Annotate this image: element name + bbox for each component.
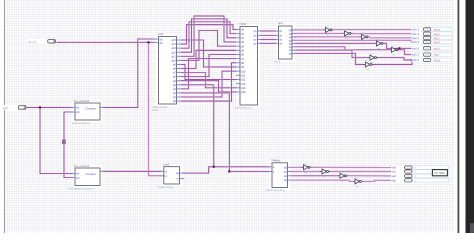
decoder U5 (7-seg driver) xyxy=(276,24,295,62)
svg-text:q13: q13 xyxy=(171,46,176,50)
wire U7.q0 to G8 xyxy=(292,166,302,168)
svg-text:inst8: inst8 xyxy=(158,33,164,36)
svg-text:seg_g: seg_g xyxy=(434,59,441,62)
output pin seg_e xyxy=(422,47,453,51)
wire G2 out to pin seg_b xyxy=(353,33,424,35)
wire net U1.q8 to U2.d5 xyxy=(181,50,236,68)
wire net U1.q11 to U2.d3 (top loop) xyxy=(181,16,236,56)
wire U5.s7 to G7 xyxy=(292,53,364,64)
svg-text:q12: q12 xyxy=(171,50,176,54)
input pin clk1 xyxy=(27,39,47,44)
wire net U1.q0 to U2.d8 xyxy=(181,63,236,101)
wire U5.s0 to G1 xyxy=(292,29,324,31)
svg-text:seg_b: seg_b xyxy=(434,33,441,36)
wire U6 out to U7 pin1 xyxy=(180,167,273,173)
svg-text:inst: inst xyxy=(366,68,370,71)
comparator U6 (small 2x2 block) xyxy=(161,164,182,186)
svg-text:out3..0: out3..0 xyxy=(412,41,420,44)
wire net U1.q9 to U2.d12 xyxy=(181,64,236,79)
svg-text:seg_e: seg_e xyxy=(434,47,441,50)
wire U5.s2 to G3 xyxy=(292,36,360,38)
note box PIC 7SEG xyxy=(432,170,447,176)
svg-text:O: O xyxy=(415,168,417,170)
wire U2.q1 to U5.d1 xyxy=(258,34,279,36)
right dark window bar xyxy=(466,0,474,233)
svg-text:Counter: Counter xyxy=(86,172,96,176)
svg-text:sel2: sel2 xyxy=(392,175,397,178)
wire G9 out to pin dig2 xyxy=(330,171,405,173)
svg-text:cmp1: cmp1 xyxy=(163,163,170,166)
svg-text:d15: d15 xyxy=(241,90,246,94)
svg-text:inst: inst xyxy=(392,53,396,56)
svg-text:74148: 74148 xyxy=(239,23,247,26)
svg-text:PIC 7SEG: PIC 7SEG xyxy=(434,173,445,175)
wire clk2 branch down to counter B pin1 xyxy=(40,107,75,173)
wire net U1.q14 to U2.d0 (top loop) xyxy=(181,25,236,44)
wire net U1.q5 to U2.d15 xyxy=(181,81,236,92)
svg-text:d13: d13 xyxy=(241,82,246,86)
NOT gate G5 xyxy=(390,49,392,51)
wire U7.q3 to G11 xyxy=(292,180,353,181)
wire U7.q2 to G10 xyxy=(292,175,338,177)
wire net U1.q3 to U2.d7 xyxy=(181,59,236,89)
svg-text:Counter: Counter xyxy=(86,107,96,111)
svg-text:d11: d11 xyxy=(241,73,246,77)
wire net U1.q4 to bottom vertical xyxy=(181,84,214,86)
svg-text:O: O xyxy=(415,172,417,174)
output pin dig4 xyxy=(413,179,449,183)
svg-text:out6..0: out6..0 xyxy=(412,59,420,62)
encoder U2 (16-input block) xyxy=(238,24,261,108)
svg-text:seg_a: seg_a xyxy=(434,29,441,32)
wire U2.q0 to U5.d0 xyxy=(258,30,279,32)
svg-text:out5..0: out5..0 xyxy=(412,54,420,57)
wire G6 out to pin seg_g xyxy=(378,58,424,60)
svg-text:out1..0: out1..0 xyxy=(412,33,420,36)
wire G1 out to pin seg_a xyxy=(334,29,424,31)
svg-text:inst3 modulus 10: inst3 modulus 10 xyxy=(72,122,90,125)
svg-text:q15: q15 xyxy=(171,38,176,42)
wire net U1.q15 to U2.d9 xyxy=(181,40,236,67)
vertical from tangle down to U7 pin1 net xyxy=(213,85,215,167)
wire U7.q1 to G9 xyxy=(292,171,320,173)
output pin seg_a xyxy=(422,28,453,32)
wire G11 out to pin dig4 xyxy=(363,180,405,181)
junction pin5 net xyxy=(398,47,400,49)
svg-text:clk_in1: clk_in1 xyxy=(28,40,37,44)
svg-text:out4..0: out4..0 xyxy=(412,47,420,50)
svg-text:out2..0: out2..0 xyxy=(412,37,420,40)
decoder U7 (bottom 4-output block) xyxy=(270,160,291,190)
svg-text:inst: inst xyxy=(341,179,345,182)
svg-text:inst14 bcd to 7seg: inst14 bcd to 7seg xyxy=(266,189,285,192)
input pin clk2 xyxy=(3,105,19,110)
NOT gate G3 xyxy=(360,36,362,38)
svg-text:q10: q10 xyxy=(171,58,176,62)
svg-text:seg_d: seg_d xyxy=(434,41,441,44)
counter U4 (bottom counter) xyxy=(73,166,103,189)
junction U7 pin1 net xyxy=(213,166,215,168)
svg-text:d12: d12 xyxy=(241,78,246,82)
NOT gate G1 xyxy=(324,29,326,31)
svg-text:inst: inst xyxy=(304,171,308,174)
svg-text:d10: d10 xyxy=(241,69,246,73)
svg-text:d14: d14 xyxy=(241,86,246,90)
wire G4 out to pin seg_e xyxy=(385,43,424,48)
svg-text:inst ttl: inst ttl xyxy=(152,109,158,112)
svg-text:O: O xyxy=(415,176,417,178)
wire net U1.q7 to U2.d14 xyxy=(181,73,236,88)
output pin seg_c xyxy=(422,36,453,40)
svg-text:sel1: sel1 xyxy=(392,171,397,174)
wire G8 out to pin dig1 xyxy=(312,166,405,168)
wire clk2 to counter A pin1 xyxy=(27,106,75,108)
NOT gate G7 xyxy=(364,64,366,66)
wire G5 out to pin seg_f xyxy=(400,50,424,55)
output pin seg_d xyxy=(422,40,453,44)
wire clk1 to U1 pin2 xyxy=(57,41,154,43)
svg-text:inst10: inst10 xyxy=(274,60,281,63)
svg-text:inst: inst xyxy=(362,41,366,44)
svg-text:lpm_counter0: lpm_counter0 xyxy=(74,100,90,103)
svg-text:sel3: sel3 xyxy=(392,179,397,182)
output pin seg_f xyxy=(422,53,453,57)
svg-text:sclr: sclr xyxy=(76,111,80,114)
junction clk2 branch xyxy=(39,106,41,108)
output pin seg_g xyxy=(422,58,453,62)
wire counter B out to U6 pin1 xyxy=(100,170,164,172)
svg-text:7448dec: 7448dec xyxy=(271,160,281,163)
svg-text:inst: inst xyxy=(326,34,330,37)
svg-text:sclr: sclr xyxy=(76,177,80,180)
svg-text:lpm_counter1: lpm_counter1 xyxy=(74,165,90,168)
wire counter A pin2 to counter B pin2 xyxy=(64,112,75,178)
wire net U1.q10 to U2.d4 (top loop) xyxy=(181,31,236,61)
wire net U1.q1 to U2.d10 xyxy=(181,71,236,97)
svg-text:inst: inst xyxy=(345,37,349,40)
NOT gate G6 xyxy=(368,57,370,59)
NOT gate G11 xyxy=(353,180,355,182)
NOT gate G8 xyxy=(302,166,304,168)
svg-text:seg_f: seg_f xyxy=(434,54,440,57)
svg-text:q14: q14 xyxy=(171,42,176,46)
svg-text:inst12 compare: inst12 compare xyxy=(158,186,174,189)
wire net U1.q12 to U2.d2 (top loop) xyxy=(181,19,236,52)
svg-text:inst4 modulus 6 count en: inst4 modulus 6 count en xyxy=(68,187,94,190)
svg-text:inst: inst xyxy=(323,175,327,178)
wire net U1.q6 to U2.d6 xyxy=(181,54,236,76)
output pin dig1 xyxy=(413,166,449,170)
output pin dig2 xyxy=(413,170,449,174)
decoder U1 (16-output block) xyxy=(156,34,179,107)
output pin dig3 xyxy=(413,174,449,178)
output pin seg_b xyxy=(422,32,453,36)
junction pin7 net xyxy=(411,59,413,61)
wire U2.q3 to U5.d3 xyxy=(258,42,279,44)
svg-text:7447: 7447 xyxy=(278,23,284,26)
wire G3 out to pin seg_c xyxy=(370,37,424,39)
svg-text:74154 decoder: 74154 decoder xyxy=(152,106,168,109)
svg-text:clk2: clk2 xyxy=(3,106,8,110)
svg-text:seg_c: seg_c xyxy=(434,37,441,40)
wire U5.s6 to G6 xyxy=(292,50,368,58)
wire U5.s4 to G4 xyxy=(292,42,375,44)
wire counter A out up to U1 pin1 xyxy=(100,39,154,107)
wire U2.q2 to U5.d2 xyxy=(258,39,279,41)
wire U5.s1 to G2 xyxy=(292,32,343,34)
vertical from tangle down to U7 pin2 net xyxy=(229,93,272,172)
junction clk1 branch xyxy=(147,41,149,43)
svg-text:sel0: sel0 xyxy=(392,167,397,170)
svg-text:q11: q11 xyxy=(172,54,177,58)
NOT gate G9 xyxy=(320,171,322,173)
wire tag on vertical x64 xyxy=(62,140,65,145)
svg-text:inst9 priority enc: inst9 priority enc xyxy=(235,107,253,110)
junction U7 pin2 net xyxy=(228,170,230,172)
svg-text:O: O xyxy=(415,180,417,182)
wire U5.s3 to pin seg_d xyxy=(292,40,424,42)
svg-text:inst: inst xyxy=(356,185,360,188)
wire G10 out to pin dig3 xyxy=(348,175,405,177)
NOT gate G2 xyxy=(343,32,345,34)
svg-text:out0..0: out0..0 xyxy=(412,29,420,32)
NOT gate G4 xyxy=(375,42,377,44)
wire net U1.q2 to bottom vertical xyxy=(181,92,229,94)
NOT gate G10 xyxy=(338,175,340,177)
wire clk1 branch down to U6 pin2 xyxy=(149,42,164,176)
right gutter line xyxy=(458,0,460,233)
wire U5.s5 to G5 xyxy=(292,47,390,50)
wire G7 out to pin seg_g net xyxy=(374,60,413,65)
wire net U1.q13 to U2.d1 (top loop) xyxy=(181,22,236,48)
counter U3 (top counter) xyxy=(73,101,103,123)
left canvas border line xyxy=(4,0,5,233)
svg-text:inst: inst xyxy=(377,47,381,50)
